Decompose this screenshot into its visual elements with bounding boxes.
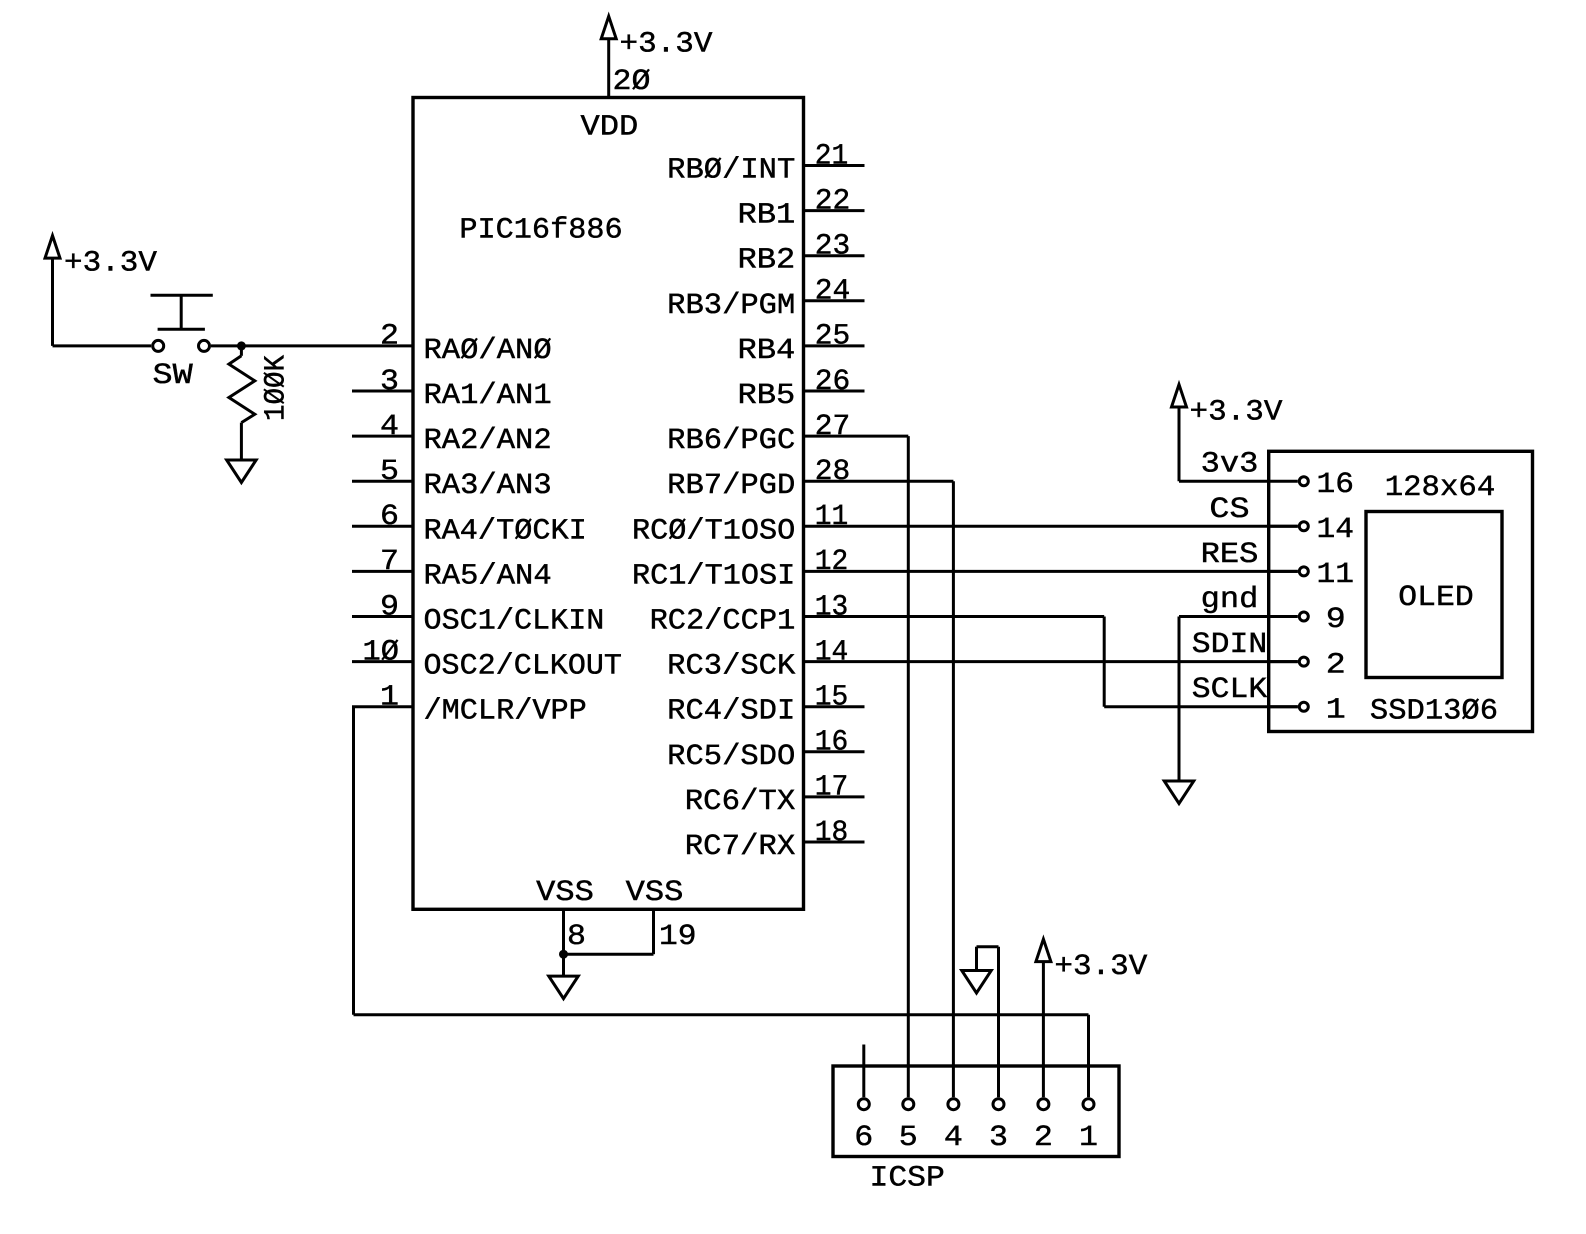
svg-text:16: 16: [1317, 468, 1355, 501]
svg-text:VSS: VSS: [536, 876, 594, 909]
pin 17 RC6/TX (right): [685, 771, 865, 818]
svg-text:14: 14: [815, 635, 849, 668]
pin 12 RC1/T1OSI (right): [632, 545, 848, 592]
svg-text:PIC16f886: PIC16f886: [459, 214, 622, 247]
svg-text:SCLK: SCLK: [1192, 673, 1268, 706]
svg-text:19: 19: [659, 920, 697, 953]
svg-text:2: 2: [380, 320, 399, 353]
OLED pin 14 CS: [1209, 493, 1354, 546]
svg-text:4: 4: [380, 410, 399, 443]
svg-text:1: 1: [1326, 693, 1346, 726]
OLED pin 1 SCLK: [1192, 673, 1346, 726]
svg-text:RB4: RB4: [738, 334, 796, 367]
svg-text:RC4/SDI: RC4/SDI: [667, 695, 795, 728]
pin 18 RC7/RX (right): [685, 816, 865, 863]
svg-text:128x64: 128x64: [1385, 471, 1496, 504]
svg-text:6: 6: [854, 1121, 873, 1154]
pin 2 RA0/AN0 (left): [380, 320, 552, 367]
svg-text:24: 24: [815, 275, 851, 308]
svg-text:RBØ/INT: RBØ/INT: [667, 154, 795, 187]
ground below resistor: [227, 460, 257, 483]
pin 8 VSS (bottom): [536, 876, 594, 954]
svg-text:RB2: RB2: [738, 244, 796, 277]
svg-text:8: 8: [567, 920, 586, 953]
svg-text:6: 6: [380, 500, 399, 533]
pin 10 OSC2/CLKOUT (left): [352, 635, 622, 682]
junction node RA0/resistor: [237, 341, 246, 350]
svg-text:3: 3: [380, 365, 399, 398]
svg-text:2: 2: [1034, 1121, 1053, 1154]
svg-text:15: 15: [815, 681, 849, 714]
pin 24 RB3/PGM (right): [667, 275, 864, 322]
svg-text:17: 17: [815, 771, 849, 804]
pushbutton SW: [151, 295, 213, 392]
wire ICSP pin3 to ground: [977, 947, 999, 1097]
connector ICSP body: [833, 1066, 1119, 1195]
ICSP pin 2: [1034, 1099, 1053, 1154]
svg-text:22: 22: [815, 184, 851, 217]
wire VSS dot to ground: [562, 954, 565, 976]
svg-text:RA1/AN1: RA1/AN1: [424, 379, 552, 412]
wire RB6/PGC pin27 to ICSP pin5: [804, 436, 909, 1097]
svg-text:28: 28: [815, 455, 851, 488]
pin 7 RA5/AN4 (left): [352, 545, 552, 592]
pin 27 RB6/PGC (right): [667, 410, 850, 457]
svg-text:RC2/CCP1: RC2/CCP1: [650, 605, 796, 638]
svg-text:3v3: 3v3: [1201, 448, 1259, 481]
wire RC2/CCP1 pin13 to OLED SCLK: [804, 617, 1298, 707]
microcontroller U1 PIC16f886 body: [413, 98, 804, 910]
svg-text:1ØØK: 1ØØK: [260, 355, 293, 421]
ICSP pin 4: [944, 1099, 963, 1154]
svg-text:RCØ/T1OSO: RCØ/T1OSO: [632, 514, 795, 547]
svg-text:RB6/PGC: RB6/PGC: [667, 424, 795, 457]
resistor R1 100K: [229, 346, 293, 460]
pin 14 RC3/SCK (right): [667, 635, 848, 682]
pin 21 RB0/INT (right): [667, 139, 864, 186]
OLED pin 16 3v3: [1201, 448, 1354, 501]
pin 19 VSS (bottom): [626, 876, 697, 954]
ground below OLED: [1164, 781, 1194, 804]
pin 9 OSC1/CLKIN (left): [352, 590, 604, 637]
wire SW to RA0 pin 2: [211, 344, 413, 347]
ICSP pin 3: [989, 1099, 1008, 1154]
stub ICSP pin6: [862, 1045, 865, 1098]
pin 3 RA1/AN1 (left): [352, 365, 552, 412]
svg-text:ICSP: ICSP: [870, 1162, 945, 1195]
svg-text:9: 9: [380, 590, 399, 623]
svg-text:14: 14: [1317, 513, 1355, 546]
svg-text:RC5/SDO: RC5/SDO: [667, 740, 795, 773]
svg-text:RC1/T1OSI: RC1/T1OSI: [632, 559, 795, 592]
svg-text:5: 5: [380, 455, 399, 488]
svg-text:RB7/PGD: RB7/PGD: [667, 469, 795, 502]
svg-text:9: 9: [1326, 603, 1346, 636]
svg-text:RC3/SCK: RC3/SCK: [667, 650, 796, 683]
svg-text:2: 2: [1326, 648, 1346, 681]
svg-text:OSC2/CLKOUT: OSC2/CLKOUT: [424, 650, 622, 683]
svg-text:21: 21: [815, 139, 849, 172]
ICSP pin 1: [1079, 1099, 1098, 1154]
OLED module SSD1306 body: [1269, 451, 1533, 731]
svg-text:18: 18: [815, 816, 849, 849]
power +3.3V at VDD: [601, 16, 713, 60]
ground at ICSP pin3: [962, 971, 992, 994]
svg-text:1: 1: [1079, 1121, 1098, 1154]
pin 23 RB2 (right): [738, 230, 865, 277]
svg-text:RA5/AN4: RA5/AN4: [424, 559, 552, 592]
svg-text:+3.3V: +3.3V: [64, 247, 157, 280]
wire +3.3V to OLED pin16: [1179, 480, 1269, 483]
pin 6 RA4/T0CKI (left): [352, 500, 587, 547]
svg-text:RC7/RX: RC7/RX: [685, 830, 796, 863]
pin 16 RC5/SDO (right): [667, 726, 864, 773]
pin 4 RA2/AN2 (left): [352, 410, 552, 457]
svg-text:16: 16: [815, 726, 849, 759]
svg-text:OLED: OLED: [1398, 581, 1473, 614]
svg-text:27: 27: [815, 410, 851, 443]
svg-text:RC6/TX: RC6/TX: [685, 785, 796, 818]
svg-text:1Ø: 1Ø: [363, 635, 400, 668]
svg-text:RAØ/ANØ: RAØ/ANØ: [424, 334, 552, 367]
svg-text:2Ø: 2Ø: [613, 65, 651, 98]
power +3.3V at switch: [45, 236, 157, 346]
svg-text:12: 12: [815, 545, 849, 578]
pin 25 RB4 (right): [738, 320, 865, 367]
pin 1 /MCLR/VPP (left): [352, 681, 587, 728]
junction VSS node: [559, 950, 568, 959]
ground at VSS: [549, 976, 579, 999]
wire +3.3V to switch SW: [53, 344, 152, 347]
pin 22 RB1 (right): [738, 184, 865, 231]
svg-text:RB5: RB5: [738, 379, 796, 412]
svg-text:RB3/PGM: RB3/PGM: [667, 289, 795, 322]
pin 13 RC2/CCP1 (right): [650, 590, 849, 637]
svg-text:25: 25: [815, 320, 851, 353]
svg-text:+3.3V: +3.3V: [1190, 396, 1283, 429]
svg-text:RA3/AN3: RA3/AN3: [424, 469, 552, 502]
svg-text:3: 3: [989, 1121, 1008, 1154]
svg-text:RA2/AN2: RA2/AN2: [424, 424, 552, 457]
wire OLED gnd pin9 to ground: [1179, 617, 1269, 782]
svg-text:/MCLR/VPP: /MCLR/VPP: [424, 695, 587, 728]
pin 26 RB5 (right): [738, 365, 865, 412]
svg-text:11: 11: [1317, 558, 1355, 591]
svg-text:11: 11: [815, 500, 849, 533]
pin 11 RC0/T1OSO (right): [632, 500, 848, 547]
svg-text:RES: RES: [1201, 538, 1259, 571]
pin 28 RB7/PGD (right): [667, 455, 850, 502]
svg-text:VSS: VSS: [626, 876, 684, 909]
pin 20 VDD (top): [581, 41, 651, 144]
svg-text:26: 26: [815, 365, 851, 398]
svg-text:SDIN: SDIN: [1192, 628, 1267, 661]
ICSP pin 6: [854, 1099, 873, 1154]
svg-text:gnd: gnd: [1201, 583, 1259, 616]
svg-text:SSD13Ø6: SSD13Ø6: [1370, 695, 1498, 728]
wire RC0/T1OSO pin11 to OLED CS: [804, 525, 1298, 528]
svg-text:SW: SW: [153, 359, 194, 392]
wire RC1/T1OSI pin12 to OLED RES: [804, 570, 1298, 573]
svg-text:13: 13: [815, 590, 849, 623]
svg-text:RB1: RB1: [738, 199, 796, 232]
OLED pin 9 gnd: [1201, 583, 1346, 636]
wire RB7/PGD pin28 to ICSP pin4: [804, 481, 954, 1097]
power +3.3V at OLED 3v3: [1172, 385, 1283, 482]
OLED pin 11 RES: [1201, 538, 1354, 591]
svg-text:+3.3V: +3.3V: [1054, 950, 1147, 983]
wire /MCLR pin1 to ICSP pin1: [354, 707, 1089, 1097]
wire RC3/SCK pin14 to OLED SDIN: [804, 660, 1298, 663]
svg-text:5: 5: [899, 1121, 918, 1154]
pin 5 RA3/AN3 (left): [352, 455, 552, 502]
svg-text:CS: CS: [1209, 493, 1249, 526]
svg-text:7: 7: [380, 545, 399, 578]
svg-text:VDD: VDD: [581, 111, 639, 144]
svg-text:1: 1: [380, 681, 399, 714]
svg-text:RA4/TØCKI: RA4/TØCKI: [424, 514, 587, 547]
svg-text:23: 23: [815, 230, 851, 263]
OLED pin 2 SDIN: [1192, 628, 1346, 681]
svg-text:OSC1/CLKIN: OSC1/CLKIN: [424, 605, 605, 638]
power +3.3V at ICSP pin2: [1036, 939, 1148, 1097]
ICSP pin 5: [899, 1099, 918, 1154]
pin 15 RC4/SDI (right): [667, 681, 864, 728]
svg-text:4: 4: [944, 1121, 963, 1154]
wire VSS pin19 to pin8: [564, 953, 654, 956]
svg-text:+3.3V: +3.3V: [620, 27, 713, 60]
